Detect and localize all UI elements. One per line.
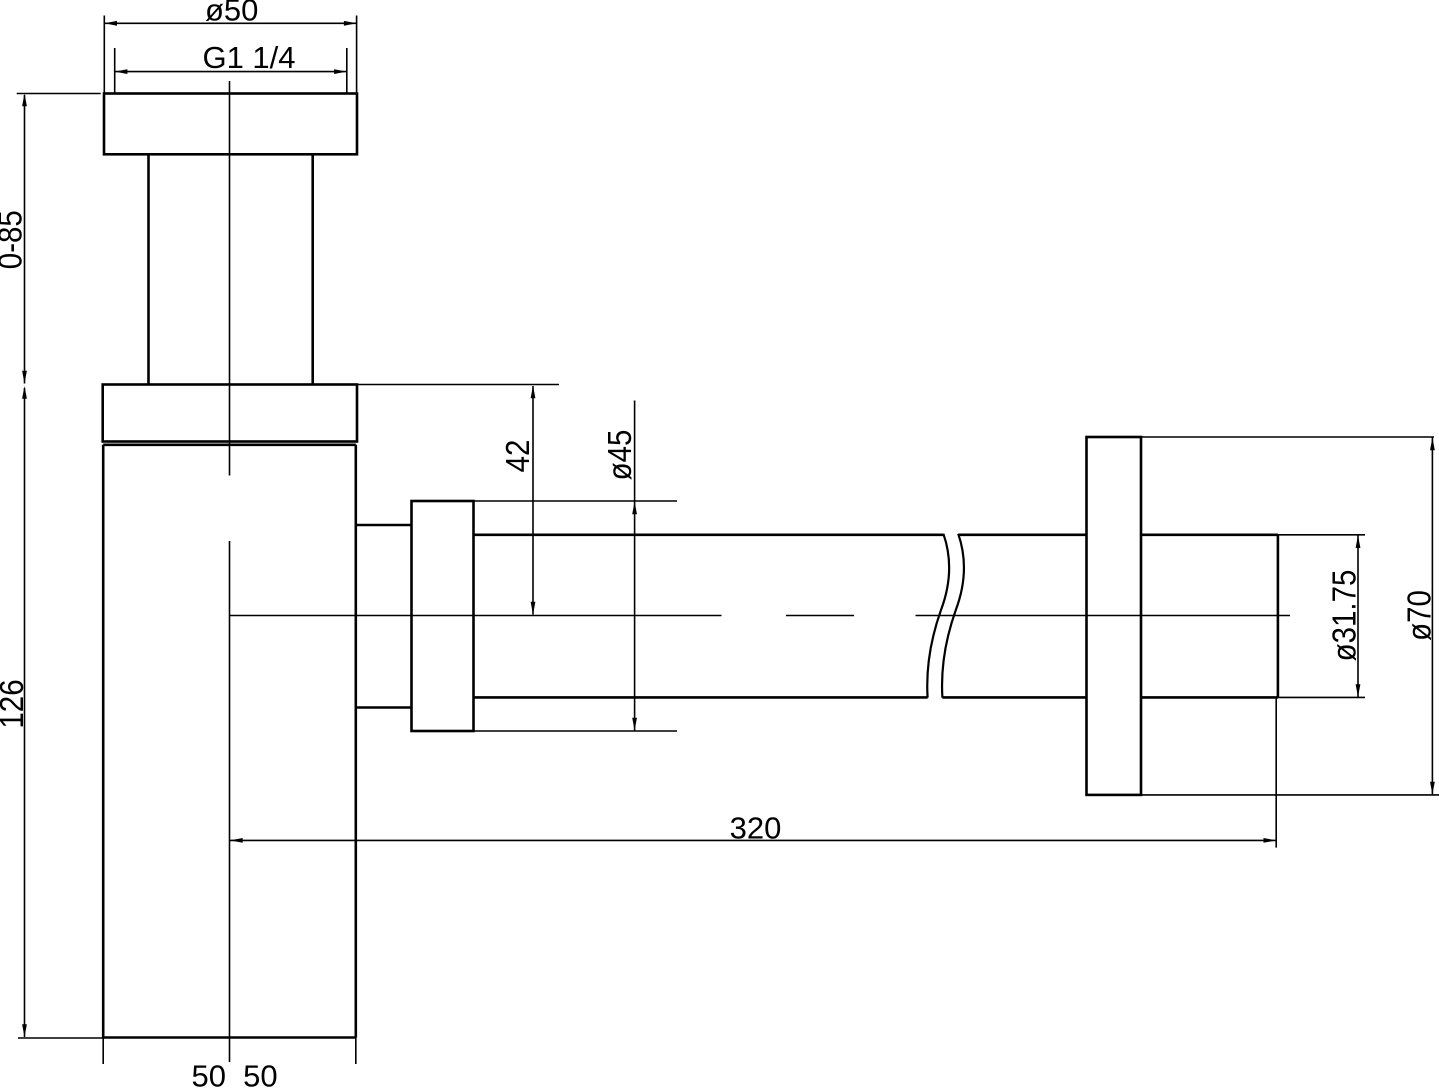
svg-text:ø70: ø70 [1400, 590, 1438, 641]
svg-text:ø31.75: ø31.75 [1325, 570, 1363, 662]
svg-text:42: 42 [498, 440, 536, 473]
svg-text:ø45: ø45 [600, 430, 638, 481]
svg-text:320: 320 [730, 810, 782, 845]
svg-text:126: 126 [0, 679, 30, 728]
svg-text:G1 1/4: G1 1/4 [202, 40, 295, 75]
svg-text:50: 50 [192, 1059, 226, 1088]
svg-text:0-85: 0-85 [0, 210, 29, 269]
svg-text:50: 50 [243, 1059, 277, 1088]
svg-text:ø50: ø50 [205, 0, 258, 28]
